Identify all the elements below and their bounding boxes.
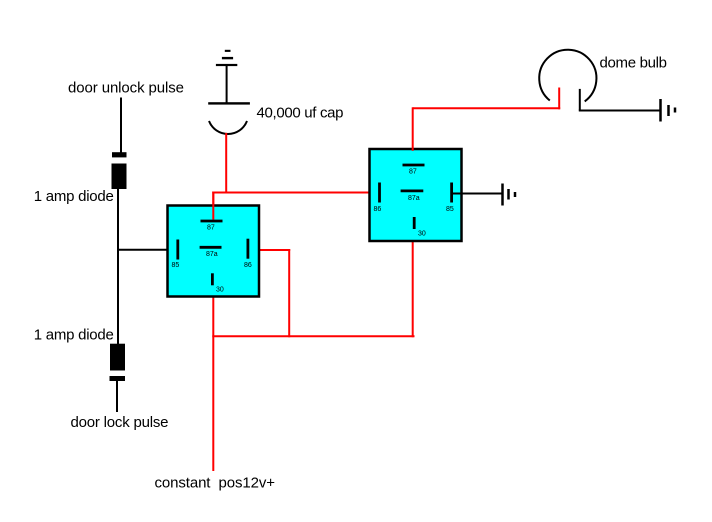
- svg-text:constant pos12v+: constant pos12v+: [155, 475, 276, 492]
- svg-text:85: 85: [446, 206, 454, 213]
- svg-text:87a: 87a: [408, 195, 420, 202]
- svg-text:dome bulb: dome bulb: [600, 54, 668, 71]
- svg-text:87: 87: [207, 225, 215, 232]
- svg-text:40,000 uf cap: 40,000 uf cap: [257, 105, 344, 122]
- svg-text:86: 86: [374, 206, 382, 213]
- svg-text:30: 30: [216, 287, 224, 294]
- svg-text:85: 85: [172, 262, 180, 269]
- svg-text:1 amp diode: 1 amp diode: [34, 327, 114, 344]
- svg-text:87: 87: [409, 168, 417, 175]
- svg-text:1 amp diode: 1 amp diode: [34, 188, 114, 205]
- svg-text:door lock pulse: door lock pulse: [71, 414, 169, 431]
- svg-text:30: 30: [418, 230, 426, 237]
- svg-text:86: 86: [244, 262, 252, 269]
- svg-text:door unlock pulse: door unlock pulse: [68, 79, 184, 96]
- svg-text:87a: 87a: [206, 251, 218, 258]
